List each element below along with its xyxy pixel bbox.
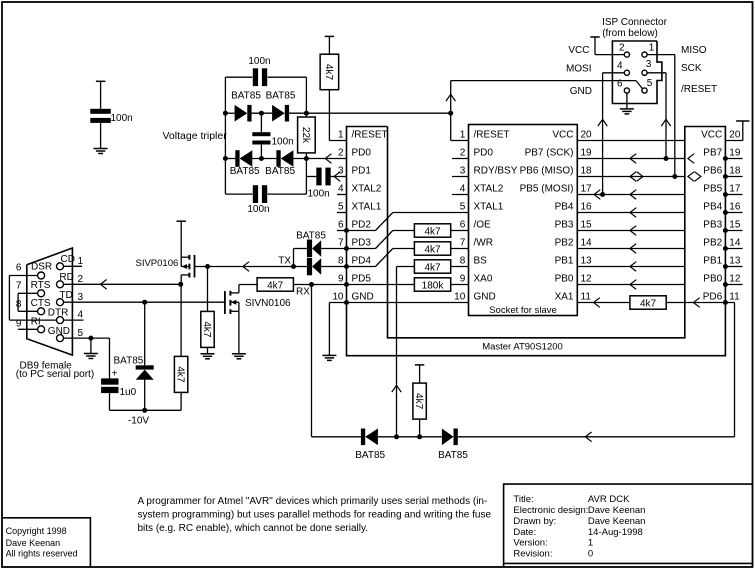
- svg-text:PD4: PD4: [352, 256, 372, 267]
- wire PD4 to R4: [347, 266, 376, 268]
- resistor R4 4k7: [414, 242, 450, 255]
- arrow on row 18: [630, 172, 636, 182]
- pin 9 RI circle: [38, 326, 45, 333]
- svg-text:PB7 (SCK): PB7 (SCK): [525, 148, 574, 159]
- wire R11 to rail: [419, 419, 421, 437]
- svg-text:3: 3: [338, 166, 344, 177]
- node SCK to PB7 row: [664, 156, 669, 161]
- wire DTR stub right: [64, 319, 84, 321]
- svg-text:XTAL1: XTAL1: [474, 202, 504, 213]
- svg-text:PB5: PB5: [703, 184, 722, 195]
- wire master pin 13 stub: [725, 266, 742, 268]
- resistor R2 4k7: [320, 54, 339, 89]
- resistor R6 180k: [414, 278, 450, 291]
- node clamp to rail: [142, 408, 147, 413]
- wire PD2 to slave XTAL1: [347, 230, 376, 232]
- svg-text:BAT85: BAT85: [296, 231, 326, 242]
- svg-text:Version:: Version:: [513, 538, 547, 549]
- wire tripler right vertical lower: [305, 177, 307, 195]
- svg-text:100n: 100n: [248, 56, 270, 67]
- pin 4 circle: [624, 70, 629, 75]
- resistor R11 4k7: [413, 383, 426, 419]
- svg-text:/OE: /OE: [474, 220, 492, 231]
- pin 4 DTR circle: [57, 317, 64, 324]
- wire diagonal to ISP pin 5: [636, 81, 643, 89]
- wire master pin 19 stub: [725, 158, 742, 160]
- pin 6 DSR circle: [38, 272, 45, 279]
- svg-text:(to PC serial port): (to PC serial port): [16, 369, 94, 380]
- arrow up on R5 net: [392, 385, 401, 392]
- svg-text:9: 9: [460, 274, 466, 285]
- wire bottom rail left: [312, 436, 361, 438]
- svg-text:17: 17: [581, 184, 593, 195]
- node R5 net to rail: [394, 434, 399, 439]
- diode D8 BAT85: [361, 429, 365, 446]
- wire slave pin 15 to master: [577, 230, 685, 232]
- svg-text:4: 4: [460, 184, 466, 195]
- arrow on TX: [243, 262, 249, 272]
- svg-text:Revision:: Revision:: [513, 549, 552, 560]
- node Q1 gate junction: [205, 264, 210, 269]
- wire master GND to ground: [328, 303, 330, 356]
- transistor Q1 SIVP0106: [177, 220, 186, 222]
- connector J2 ISP outline: [612, 41, 662, 104]
- svg-text:CD: CD: [61, 254, 75, 265]
- svg-text:2: 2: [338, 148, 344, 159]
- wire slave pin 19 to master: [577, 158, 685, 160]
- wire PD1 coupling branch: [306, 176, 316, 178]
- power stub above R11: [415, 364, 424, 366]
- svg-text:bits (e.g. RC enable), which c: bits (e.g. RC enable), which cannot be d…: [138, 523, 369, 534]
- svg-text:/WR: /WR: [474, 238, 493, 249]
- pin 8 CTS circle: [38, 308, 45, 315]
- svg-text:Title:: Title:: [513, 494, 533, 505]
- svg-text:6: 6: [338, 220, 344, 231]
- wire to ground db9: [90, 338, 92, 353]
- wire slave pin 13 to master: [577, 266, 685, 268]
- svg-text:RTS: RTS: [31, 280, 51, 291]
- wire R4 to slave /WR: [451, 248, 469, 250]
- wire bottom rail mid: [378, 436, 442, 438]
- node RX junction: [309, 282, 314, 287]
- svg-text:BAT85: BAT85: [438, 450, 468, 461]
- resistor R10 4k7 RX: [257, 278, 293, 291]
- arrow on row 14: [630, 244, 636, 254]
- svg-text:4k7: 4k7: [323, 64, 334, 81]
- svg-text:13: 13: [729, 256, 741, 267]
- svg-text:Master AT90S1200: Master AT90S1200: [482, 342, 563, 353]
- wire tripler top: [225, 76, 252, 78]
- wire -10V rail: [110, 409, 182, 411]
- svg-text:1u0: 1u0: [120, 387, 137, 398]
- svg-text:3: 3: [78, 292, 84, 303]
- arrow reverse on row 18: [637, 172, 643, 182]
- svg-text:BAT85: BAT85: [265, 166, 295, 177]
- pin 5 circle: [642, 88, 647, 93]
- node R11 to rail: [417, 434, 422, 439]
- wire slave pin 2 stub: [452, 158, 469, 160]
- arrow right column row 18 pair: [688, 172, 694, 182]
- wire R10 to RX node: [293, 284, 311, 286]
- capacitor C5 100n PD1 coupling: [316, 168, 321, 186]
- wire master pin 6 stub: [337, 230, 347, 232]
- arrow on row 17: [630, 190, 636, 200]
- connector J1 DB9 outline: [27, 248, 73, 355]
- node DB9 ground junction: [88, 336, 93, 341]
- svg-text:4: 4: [78, 310, 84, 321]
- pin 3 circle: [642, 70, 647, 75]
- svg-text:6: 6: [460, 220, 466, 231]
- svg-text:PB1: PB1: [703, 256, 722, 267]
- svg-text:RX: RX: [296, 287, 310, 298]
- wire slave pin 17 to master: [577, 194, 685, 196]
- node master pin 12: [723, 282, 728, 287]
- svg-text:-10V: -10V: [128, 416, 149, 427]
- svg-text:7: 7: [16, 280, 22, 291]
- svg-text:RDY/BSY: RDY/BSY: [474, 166, 518, 177]
- svg-text:10: 10: [454, 292, 466, 303]
- svg-text:Dave Keenan: Dave Keenan: [6, 538, 61, 548]
- wire TD to SIVN gate: [64, 301, 225, 303]
- arrow on row 19: [630, 154, 636, 164]
- wire RX vertical to rail: [311, 285, 313, 437]
- svg-text:7: 7: [460, 238, 466, 249]
- wire slave pin 20 to master: [577, 140, 685, 142]
- diode D9 BAT85: [442, 429, 454, 446]
- svg-text:BAT85: BAT85: [114, 356, 144, 367]
- svg-text:PB2: PB2: [555, 238, 574, 249]
- node tripler row1 mid junction: [259, 111, 264, 116]
- arrow into master PD0: [325, 154, 331, 164]
- node master pin 6: [344, 228, 349, 233]
- wire master pin 18 stub: [725, 176, 742, 178]
- svg-text:1: 1: [78, 256, 84, 267]
- pin 3 TD circle: [57, 299, 64, 306]
- ic U2 socket for slave outline: [469, 125, 578, 316]
- svg-text:5: 5: [460, 202, 466, 213]
- resistor R8 4k7 RD pulldown: [180, 284, 182, 356]
- transistor Q2 SIVN0106: [224, 291, 226, 314]
- arrow up on /RESET net: [446, 94, 455, 101]
- pin 6 circle: [624, 88, 629, 93]
- diode D4 BAT85: [276, 150, 280, 167]
- arrow on row 15: [630, 226, 636, 236]
- node master pin 19: [723, 156, 728, 161]
- arrow into master PD1: [334, 172, 340, 182]
- svg-text:TD: TD: [59, 290, 72, 301]
- arrow extra on row 17: [594, 190, 600, 200]
- svg-text:PD3: PD3: [352, 238, 372, 249]
- svg-text:PB3: PB3: [555, 220, 574, 231]
- wire R1 to PD0 row: [305, 153, 307, 177]
- svg-text:22k: 22k: [300, 127, 311, 144]
- capacitor C1 100n decoupling stub: [96, 80, 105, 82]
- svg-text:11: 11: [581, 292, 592, 303]
- wire tripler diode row 1: [225, 112, 234, 114]
- node master pin 11: [723, 300, 728, 305]
- svg-text:9: 9: [338, 274, 344, 285]
- svg-text:4k7: 4k7: [640, 299, 657, 310]
- svg-text:BAT85: BAT85: [355, 450, 385, 461]
- diode D6 BAT85 to PD3: [307, 240, 312, 258]
- wire tripler diode row 2 PD0 net: [225, 158, 235, 160]
- diode D3 BAT85: [235, 150, 239, 167]
- svg-text:6: 6: [16, 263, 22, 274]
- svg-text:XA1: XA1: [555, 292, 574, 303]
- node PD0 22k junction: [304, 156, 309, 161]
- svg-text:4: 4: [338, 184, 344, 195]
- svg-text:Dave Keenan: Dave Keenan: [588, 505, 646, 516]
- capacitor C1 plates: [90, 109, 111, 114]
- svg-text:PB0: PB0: [703, 274, 722, 285]
- node master pin 17: [723, 192, 728, 197]
- svg-text:ISP Connector: ISP Connector: [602, 17, 668, 28]
- resistor R1 22k: [298, 117, 316, 153]
- wire slave pin 18 to master: [577, 176, 685, 178]
- wire slave pin 14 to master: [577, 248, 685, 250]
- arrow on row 12: [630, 280, 636, 290]
- wire tripler middle cap branch: [260, 113, 262, 132]
- wire slave /RESET vertical: [450, 81, 452, 141]
- arrow on row 13: [630, 262, 636, 272]
- svg-text:12: 12: [729, 274, 741, 285]
- svg-text:Dave Keenan: Dave Keenan: [588, 516, 646, 527]
- power stub VCC above R2: [325, 35, 334, 37]
- svg-text:5: 5: [647, 78, 653, 89]
- svg-text:3: 3: [646, 59, 652, 70]
- node master pin 10: [344, 300, 349, 305]
- svg-text:TX: TX: [278, 256, 291, 267]
- wire GND to C6: [109, 338, 111, 378]
- diode D1 BAT85: [235, 105, 248, 122]
- svg-text:5: 5: [338, 202, 344, 213]
- wire RX to master PD5: [312, 284, 347, 286]
- wire Q1 gate: [195, 266, 208, 268]
- wire PD5 to R6: [347, 284, 415, 286]
- svg-text:20: 20: [581, 130, 593, 141]
- node master pin 14: [723, 246, 728, 251]
- svg-text:4: 4: [617, 61, 623, 72]
- power stub VCC at ISP: [590, 36, 599, 38]
- ground below ISP: [620, 108, 634, 110]
- wire master pin 15 stub: [725, 230, 742, 232]
- pin 2 RD circle: [57, 281, 64, 288]
- node master pin 8: [344, 264, 349, 269]
- wire slave pin 11 to R7: [577, 302, 630, 304]
- svg-text:19: 19: [581, 148, 593, 159]
- wire GND pin 5: [64, 337, 110, 339]
- copyright box: [2, 518, 90, 567]
- wire C6 to -10V rail: [109, 393, 111, 410]
- arrow on bottom rail: [585, 432, 591, 442]
- wire Q2 drain to R10: [238, 285, 240, 293]
- svg-text:2: 2: [78, 274, 84, 285]
- svg-text:VCC: VCC: [552, 130, 573, 141]
- pin 7 RTS circle: [38, 290, 45, 297]
- wire R2 to master pin 1: [328, 90, 330, 141]
- svg-text:0: 0: [588, 549, 593, 560]
- wire ISP VCC stub: [595, 54, 624, 56]
- svg-text:4k7: 4k7: [267, 281, 284, 292]
- svg-text:4k7: 4k7: [413, 393, 424, 410]
- svg-text:All rights reserved: All rights reserved: [6, 548, 78, 558]
- ground below R9: [201, 353, 215, 355]
- svg-text:16: 16: [729, 202, 741, 213]
- wire R3 to slave /OE: [451, 230, 469, 232]
- wire RI stub: [18, 328, 37, 330]
- svg-text:PB3: PB3: [703, 220, 722, 231]
- svg-text:11: 11: [729, 292, 740, 303]
- svg-text:PB2: PB2: [703, 238, 722, 249]
- wire RD to SIVP drain: [64, 283, 181, 285]
- svg-text:180k: 180k: [422, 281, 445, 292]
- wire master pin 17 stub: [725, 194, 742, 196]
- svg-text:12: 12: [581, 274, 593, 285]
- diode D2 BAT85: [272, 105, 285, 122]
- wire ISP pin 6 to ground: [626, 93, 628, 109]
- svg-text:100n: 100n: [272, 137, 294, 148]
- svg-text:15: 15: [729, 220, 741, 231]
- node tripler row2 left junction: [223, 156, 228, 161]
- svg-text:18: 18: [729, 166, 741, 177]
- wire PD3 to R3: [347, 248, 376, 250]
- svg-text:BS: BS: [474, 256, 488, 267]
- svg-text:2: 2: [619, 43, 625, 54]
- node tripler row1 right junction: [304, 111, 309, 116]
- svg-text:PD0: PD0: [352, 148, 372, 159]
- svg-text:10: 10: [332, 292, 344, 303]
- node master pin 7: [344, 246, 349, 251]
- capacitor C6 1u0 electrolytic: [101, 378, 118, 384]
- wire R7 to master PD6: [666, 302, 725, 304]
- svg-text:5: 5: [78, 328, 84, 339]
- node slave reset junction: [448, 111, 453, 116]
- svg-text:100n: 100n: [308, 188, 330, 199]
- svg-text:MISO: MISO: [681, 45, 707, 56]
- svg-text:+: +: [112, 369, 118, 380]
- svg-text:100n: 100n: [111, 113, 133, 124]
- svg-text:4k7: 4k7: [174, 366, 185, 383]
- wire slave pin 4 stub: [452, 194, 469, 196]
- resistor R7 4k7: [630, 296, 666, 309]
- svg-text:PB5 (MOSI): PB5 (MOSI): [520, 184, 574, 195]
- svg-text:A programmer for Atmel "AVR" d: A programmer for Atmel "AVR" devices whi…: [138, 496, 488, 507]
- pin 1 circle: [642, 52, 647, 57]
- svg-text:VCC: VCC: [568, 45, 589, 56]
- svg-text:1: 1: [588, 538, 593, 549]
- svg-text:4k7: 4k7: [201, 321, 212, 338]
- svg-text:DSR: DSR: [31, 261, 52, 272]
- svg-text:8: 8: [16, 299, 22, 310]
- wire RX net to R5: [397, 266, 415, 268]
- node MISO to PB6 row: [672, 174, 677, 179]
- svg-text:Date:: Date:: [513, 527, 536, 538]
- svg-text:8: 8: [338, 256, 344, 267]
- svg-text:SIVP0106: SIVP0106: [136, 258, 179, 269]
- wire MOSI from ISP pin 4: [603, 72, 625, 74]
- svg-text:RD: RD: [59, 272, 73, 283]
- wire master pin 5 stub: [337, 212, 347, 214]
- svg-text:PB7: PB7: [703, 148, 722, 159]
- ground below Q2: [232, 353, 246, 355]
- wire D7 to master PD4: [321, 266, 346, 268]
- svg-text:SCK: SCK: [681, 63, 702, 74]
- capacitor C2 100n tripler top: [253, 68, 258, 86]
- svg-text:4k7: 4k7: [424, 245, 441, 256]
- wire /RESET to ISP pin 5: [451, 80, 636, 82]
- node TX junction: [291, 264, 296, 269]
- wire master pin 12 stub: [725, 284, 742, 286]
- svg-text:PD1: PD1: [352, 166, 372, 177]
- resistor R5 4k7: [414, 260, 450, 273]
- wire Q2 source to ground: [238, 311, 240, 354]
- svg-text:VCC: VCC: [701, 130, 722, 141]
- svg-text:Socket for slave: Socket for slave: [489, 305, 557, 316]
- wire bottom rail right: [458, 436, 735, 438]
- resistor R3 4k7: [414, 224, 450, 237]
- svg-text:13: 13: [581, 256, 593, 267]
- svg-text:GND: GND: [474, 292, 496, 303]
- svg-text:PD0: PD0: [474, 148, 494, 159]
- pin 2 circle: [624, 52, 629, 57]
- arrow on row 11: [594, 298, 600, 308]
- wire CD stub: [64, 265, 83, 267]
- wire GND row master to slave: [329, 302, 468, 304]
- svg-text:14: 14: [729, 238, 741, 249]
- svg-text:AVR DCK: AVR DCK: [588, 494, 630, 505]
- wire master pin 4 stub: [337, 194, 347, 196]
- svg-text:2: 2: [460, 148, 466, 159]
- diode D5 BAT85 clamp: [136, 365, 154, 369]
- capacitor C3 100n tripler middle: [252, 132, 270, 136]
- wire master pin 14 stub: [725, 248, 742, 250]
- svg-text:/RESET: /RESET: [474, 130, 510, 141]
- svg-text:DTR: DTR: [48, 308, 69, 319]
- svg-text:XA0: XA0: [474, 274, 493, 285]
- svg-text:PB4: PB4: [555, 202, 574, 213]
- svg-text:PB4: PB4: [703, 202, 722, 213]
- node master pin 15: [723, 228, 728, 233]
- svg-text:Voltage tripler: Voltage tripler: [163, 130, 228, 142]
- svg-text:8: 8: [460, 256, 466, 267]
- ic U1 master AT90S1200 outline: [347, 127, 726, 356]
- svg-text:17: 17: [729, 184, 741, 195]
- svg-text:6: 6: [617, 78, 623, 89]
- node RD SIVP R8 junction: [178, 282, 183, 287]
- resistor R9 4k7 gate pulldown: [207, 267, 209, 312]
- wire RTS to CTS loopback: [18, 292, 37, 294]
- wire slave pin 3 stub: [452, 176, 469, 178]
- svg-text:PD6: PD6: [703, 292, 723, 303]
- svg-text:19: 19: [729, 148, 741, 159]
- wire master pin 16 stub: [725, 212, 742, 214]
- arrow right column row 11: [693, 298, 699, 308]
- svg-text:20: 20: [729, 130, 741, 141]
- wire tripler left vertical: [224, 77, 226, 194]
- svg-text:1: 1: [338, 130, 344, 141]
- svg-text:XTAL2: XTAL2: [474, 184, 504, 195]
- wire R5 to slave BS: [451, 266, 469, 268]
- svg-text:PB1: PB1: [555, 256, 574, 267]
- svg-text:15: 15: [581, 220, 593, 231]
- wire tripler right vertical upper: [305, 77, 307, 117]
- pin 1 CD circle: [57, 263, 64, 270]
- svg-text:100n: 100n: [247, 204, 269, 215]
- ground below master GND: [322, 354, 336, 356]
- svg-text:BAT85: BAT85: [230, 166, 260, 177]
- svg-text:BAT85: BAT85: [266, 91, 296, 102]
- arrow up on SCK: [661, 119, 670, 126]
